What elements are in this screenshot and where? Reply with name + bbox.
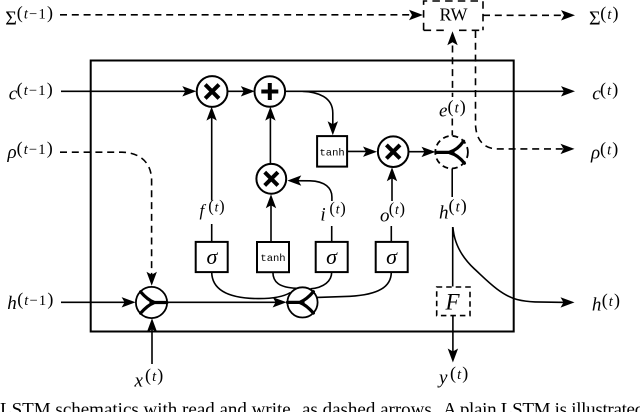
svg-text:tanh: tanh <box>260 253 285 265</box>
svg-text:(t−1): (t−1) <box>17 138 54 159</box>
svg-text:(t): (t) <box>448 96 467 117</box>
svg-text:h: h <box>592 294 602 315</box>
svg-text:σ: σ <box>207 244 219 269</box>
svg-text:e: e <box>439 101 447 122</box>
svg-text:(t): (t) <box>600 79 619 100</box>
svg-text:(t): (t) <box>329 199 346 218</box>
svg-text:ρ: ρ <box>7 142 17 163</box>
svg-text:(t−1): (t−1) <box>17 289 54 310</box>
svg-text:(t): (t) <box>600 138 619 159</box>
svg-text:Σ: Σ <box>589 8 601 30</box>
svg-text:y: y <box>437 368 448 389</box>
svg-text:LSTM schematics with read and: LSTM schematics with read and writeas da… <box>0 400 640 412</box>
svg-text:h: h <box>7 293 16 314</box>
svg-text:σ: σ <box>326 244 338 269</box>
svg-text:(t): (t) <box>145 365 164 386</box>
svg-text:(t): (t) <box>602 290 621 311</box>
svg-text:(t−1): (t−1) <box>17 2 54 23</box>
svg-text:(t): (t) <box>450 363 469 384</box>
svg-text:σ: σ <box>386 244 398 269</box>
svg-text:h: h <box>439 202 449 223</box>
svg-text:i: i <box>320 204 325 225</box>
svg-text:tanh: tanh <box>320 147 345 159</box>
svg-text:RW: RW <box>440 5 468 25</box>
svg-text:(t): (t) <box>600 3 619 24</box>
svg-text:f: f <box>200 201 207 220</box>
svg-text:(t−1): (t−1) <box>17 79 54 100</box>
svg-text:x: x <box>134 371 144 392</box>
svg-text:(t): (t) <box>389 199 406 218</box>
svg-text:ρ: ρ <box>590 143 600 164</box>
svg-text:F: F <box>445 290 461 315</box>
svg-text:Σ: Σ <box>5 7 17 29</box>
svg-text:(t): (t) <box>449 196 468 217</box>
svg-text:(t): (t) <box>208 196 225 215</box>
